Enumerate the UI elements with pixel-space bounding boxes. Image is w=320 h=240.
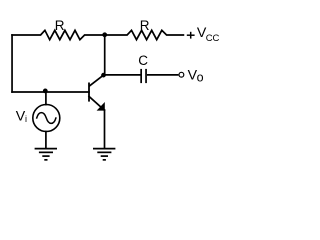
- svg-text:CC: CC: [206, 33, 220, 44]
- svg-text:o: o: [197, 71, 204, 85]
- svg-text:i: i: [25, 114, 27, 124]
- svg-text:R: R: [55, 18, 65, 33]
- svg-text:C: C: [138, 53, 148, 68]
- svg-text:R: R: [140, 18, 150, 33]
